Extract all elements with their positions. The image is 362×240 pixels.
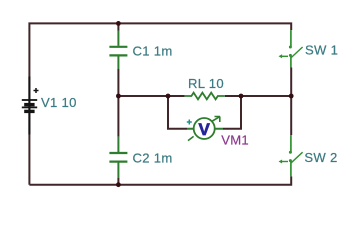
svg-text:C1 1m: C1 1m <box>133 44 173 59</box>
svg-text:VM1: VM1 <box>221 132 249 147</box>
svg-text:V1 10: V1 10 <box>41 95 77 110</box>
svg-text:SW 1: SW 1 <box>305 42 338 57</box>
svg-text:V: V <box>199 120 211 139</box>
svg-text:C2 1m: C2 1m <box>133 151 173 166</box>
svg-text:SW 2: SW 2 <box>304 150 337 165</box>
svg-text:RL 10: RL 10 <box>188 76 224 91</box>
